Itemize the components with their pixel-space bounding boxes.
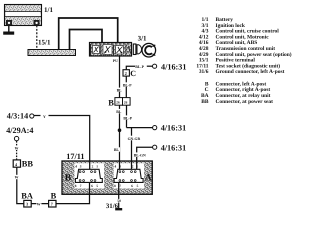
svg-text:BB: BB <box>201 99 209 105</box>
ground (battery) <box>3 32 14 35</box>
svg-text:BL: BL <box>114 148 120 152</box>
wire C branch up to 4/16:31 <box>126 66 135 70</box>
label BL <box>116 109 122 113</box>
wire BL into right cutout <box>119 161 121 169</box>
svg-text:BL: BL <box>116 110 122 114</box>
wire battery positive to 15/1 (dashed) <box>36 26 38 50</box>
battery 1/1 <box>5 5 42 26</box>
svg-text:GN-GR: GN-GR <box>128 137 141 141</box>
svg-text:C: C <box>130 69 136 78</box>
svg-text:15/1: 15/1 <box>38 38 51 46</box>
svg-text:Connector, at power seat: Connector, at power seat <box>216 99 274 105</box>
svg-text:31/6: 31/6 <box>199 69 209 75</box>
svg-text:2: 2 <box>132 164 134 168</box>
connector BB box <box>13 160 20 167</box>
wire branch to 4/16:31 (second) <box>137 147 153 169</box>
wire ignition lock output PU <box>119 56 121 98</box>
wire BB down and right to BA <box>17 167 24 203</box>
svg-text:W: W <box>37 202 41 206</box>
svg-text:BL-P: BL-P <box>123 116 132 120</box>
left cutout pin numbers bottom <box>75 184 99 188</box>
wire from left cutout base to socket bottom <box>89 182 91 194</box>
terminal circle 4/16:31 <box>153 64 157 68</box>
svg-text:Ground connector, left A-post: Ground connector, left A-post <box>216 69 285 75</box>
connector B left pin box <box>115 98 123 106</box>
svg-text:B: B <box>51 192 57 201</box>
terminal circle 4/29A:4 <box>14 136 18 140</box>
label W <box>14 175 19 179</box>
svg-text:4/16:31: 4/16:31 <box>161 143 186 152</box>
wire C to B connector (BL-P) <box>125 76 127 98</box>
svg-text:BB: BB <box>22 159 34 168</box>
svg-text:17/11: 17/11 <box>66 152 84 161</box>
svg-text:BL-GN: BL-GN <box>134 154 146 158</box>
svg-text:8: 8 <box>114 184 116 188</box>
wire B left down to test socket (BL) <box>119 105 121 169</box>
svg-text:W: W <box>15 176 19 180</box>
label W <box>36 201 41 205</box>
connector B box <box>49 200 56 207</box>
wire battery negative to ground <box>8 26 10 32</box>
wire branch to 4/16:31 (first) <box>127 127 153 129</box>
wire to terminal <box>147 65 153 67</box>
svg-text:3: 3 <box>80 164 82 168</box>
wire 15/1 to ignition lock (outer) <box>59 18 118 50</box>
label BL (above B) <box>116 88 122 92</box>
test socket right cutout <box>114 163 145 188</box>
right cutout pin numbers bottom <box>114 184 139 188</box>
right cutout pin numbers top <box>115 164 139 168</box>
terminal circle 4/16:31 <box>153 145 157 149</box>
svg-text:8: 8 <box>75 184 77 188</box>
label BL-P <box>123 82 134 86</box>
svg-text:3/1: 3/1 <box>138 35 147 43</box>
svg-text:5: 5 <box>96 184 98 188</box>
svg-text:B: B <box>108 98 114 107</box>
svg-text:7: 7 <box>51 202 53 207</box>
svg-text:5: 5 <box>137 184 139 188</box>
wire GN-GR down to test socket <box>131 128 133 170</box>
test socket left cutout <box>75 163 105 188</box>
ground 31/6 <box>115 208 122 210</box>
svg-text:26: 26 <box>116 101 120 105</box>
label 50 <box>117 199 122 203</box>
ignition lock cylinder bar <box>133 44 136 55</box>
wire Y to test socket <box>34 115 41 117</box>
svg-text:4/16:31: 4/16:31 <box>161 124 186 133</box>
wire BA to B <box>31 203 48 205</box>
svg-text:2: 2 <box>92 164 94 168</box>
svg-text:7: 7 <box>119 184 121 188</box>
label BL-GN <box>134 152 149 157</box>
svg-text:3: 3 <box>119 164 121 168</box>
svg-text:A: A <box>145 173 152 184</box>
label BL-P <box>123 115 134 119</box>
svg-text:1/1: 1/1 <box>44 6 53 14</box>
legend <box>196 17 291 105</box>
label GN-GR <box>127 136 142 141</box>
svg-text:PU: PU <box>113 59 118 63</box>
junction dot <box>118 128 122 132</box>
battery terminal positive <box>34 20 39 25</box>
wire ground from socket (50) <box>118 182 120 208</box>
connector C box pin 2 <box>123 70 129 76</box>
svg-text:4/16:31: 4/16:31 <box>161 62 186 71</box>
svg-text:6: 6 <box>91 184 93 188</box>
svg-text:W: W <box>15 146 19 150</box>
svg-text:1: 1 <box>136 164 138 168</box>
terminal circle 4/3:14 <box>30 114 34 118</box>
label W <box>14 145 19 149</box>
svg-text:4/29A:4: 4/29A:4 <box>6 126 33 135</box>
battery terminal negative <box>6 20 11 25</box>
wire B box to test socket <box>56 182 90 203</box>
ignition lock cylinder D-shape <box>137 45 142 54</box>
connector BA box <box>24 200 31 207</box>
label BL <box>114 147 120 151</box>
svg-text:Y: Y <box>43 115 46 119</box>
left cutout pin numbers top <box>75 164 98 168</box>
wire BL-GN into right cutout <box>136 161 138 169</box>
svg-text:BL: BL <box>117 88 123 92</box>
svg-text:4: 4 <box>75 164 77 168</box>
test socket 17/11 body <box>62 161 152 194</box>
svg-text:BA: BA <box>21 192 33 201</box>
svg-text:2: 2 <box>125 71 127 76</box>
left connector trapezoid <box>75 169 102 182</box>
svg-text:BL-P: BL-P <box>135 65 144 69</box>
svg-text:B: B <box>65 173 72 184</box>
wire 15/1 to ignition lock (inner) <box>70 30 103 50</box>
wire W dashed to BB <box>16 141 18 160</box>
terminal circle 4/16:31 <box>153 126 157 130</box>
svg-text:3: 3 <box>26 202 28 207</box>
svg-text:4/3:14: 4/3:14 <box>7 112 28 121</box>
svg-text:6: 6 <box>131 184 133 188</box>
right connector trapezoid <box>114 169 143 182</box>
ignition key circle <box>142 43 156 57</box>
wire B right down (BL-P) <box>126 105 128 127</box>
svg-text:4: 4 <box>115 164 117 168</box>
positive terminal 15/1 <box>28 50 76 56</box>
wire GN-GR into right cutout <box>131 161 133 169</box>
connector B right pin box <box>123 98 131 106</box>
svg-text:26: 26 <box>124 101 128 105</box>
svg-text:7: 7 <box>80 184 82 188</box>
wire Y into left cutout <box>89 161 91 169</box>
ignition lock 3/1 body <box>90 43 132 57</box>
svg-text:1: 1 <box>96 164 98 168</box>
svg-text:BL-P: BL-P <box>123 83 132 87</box>
